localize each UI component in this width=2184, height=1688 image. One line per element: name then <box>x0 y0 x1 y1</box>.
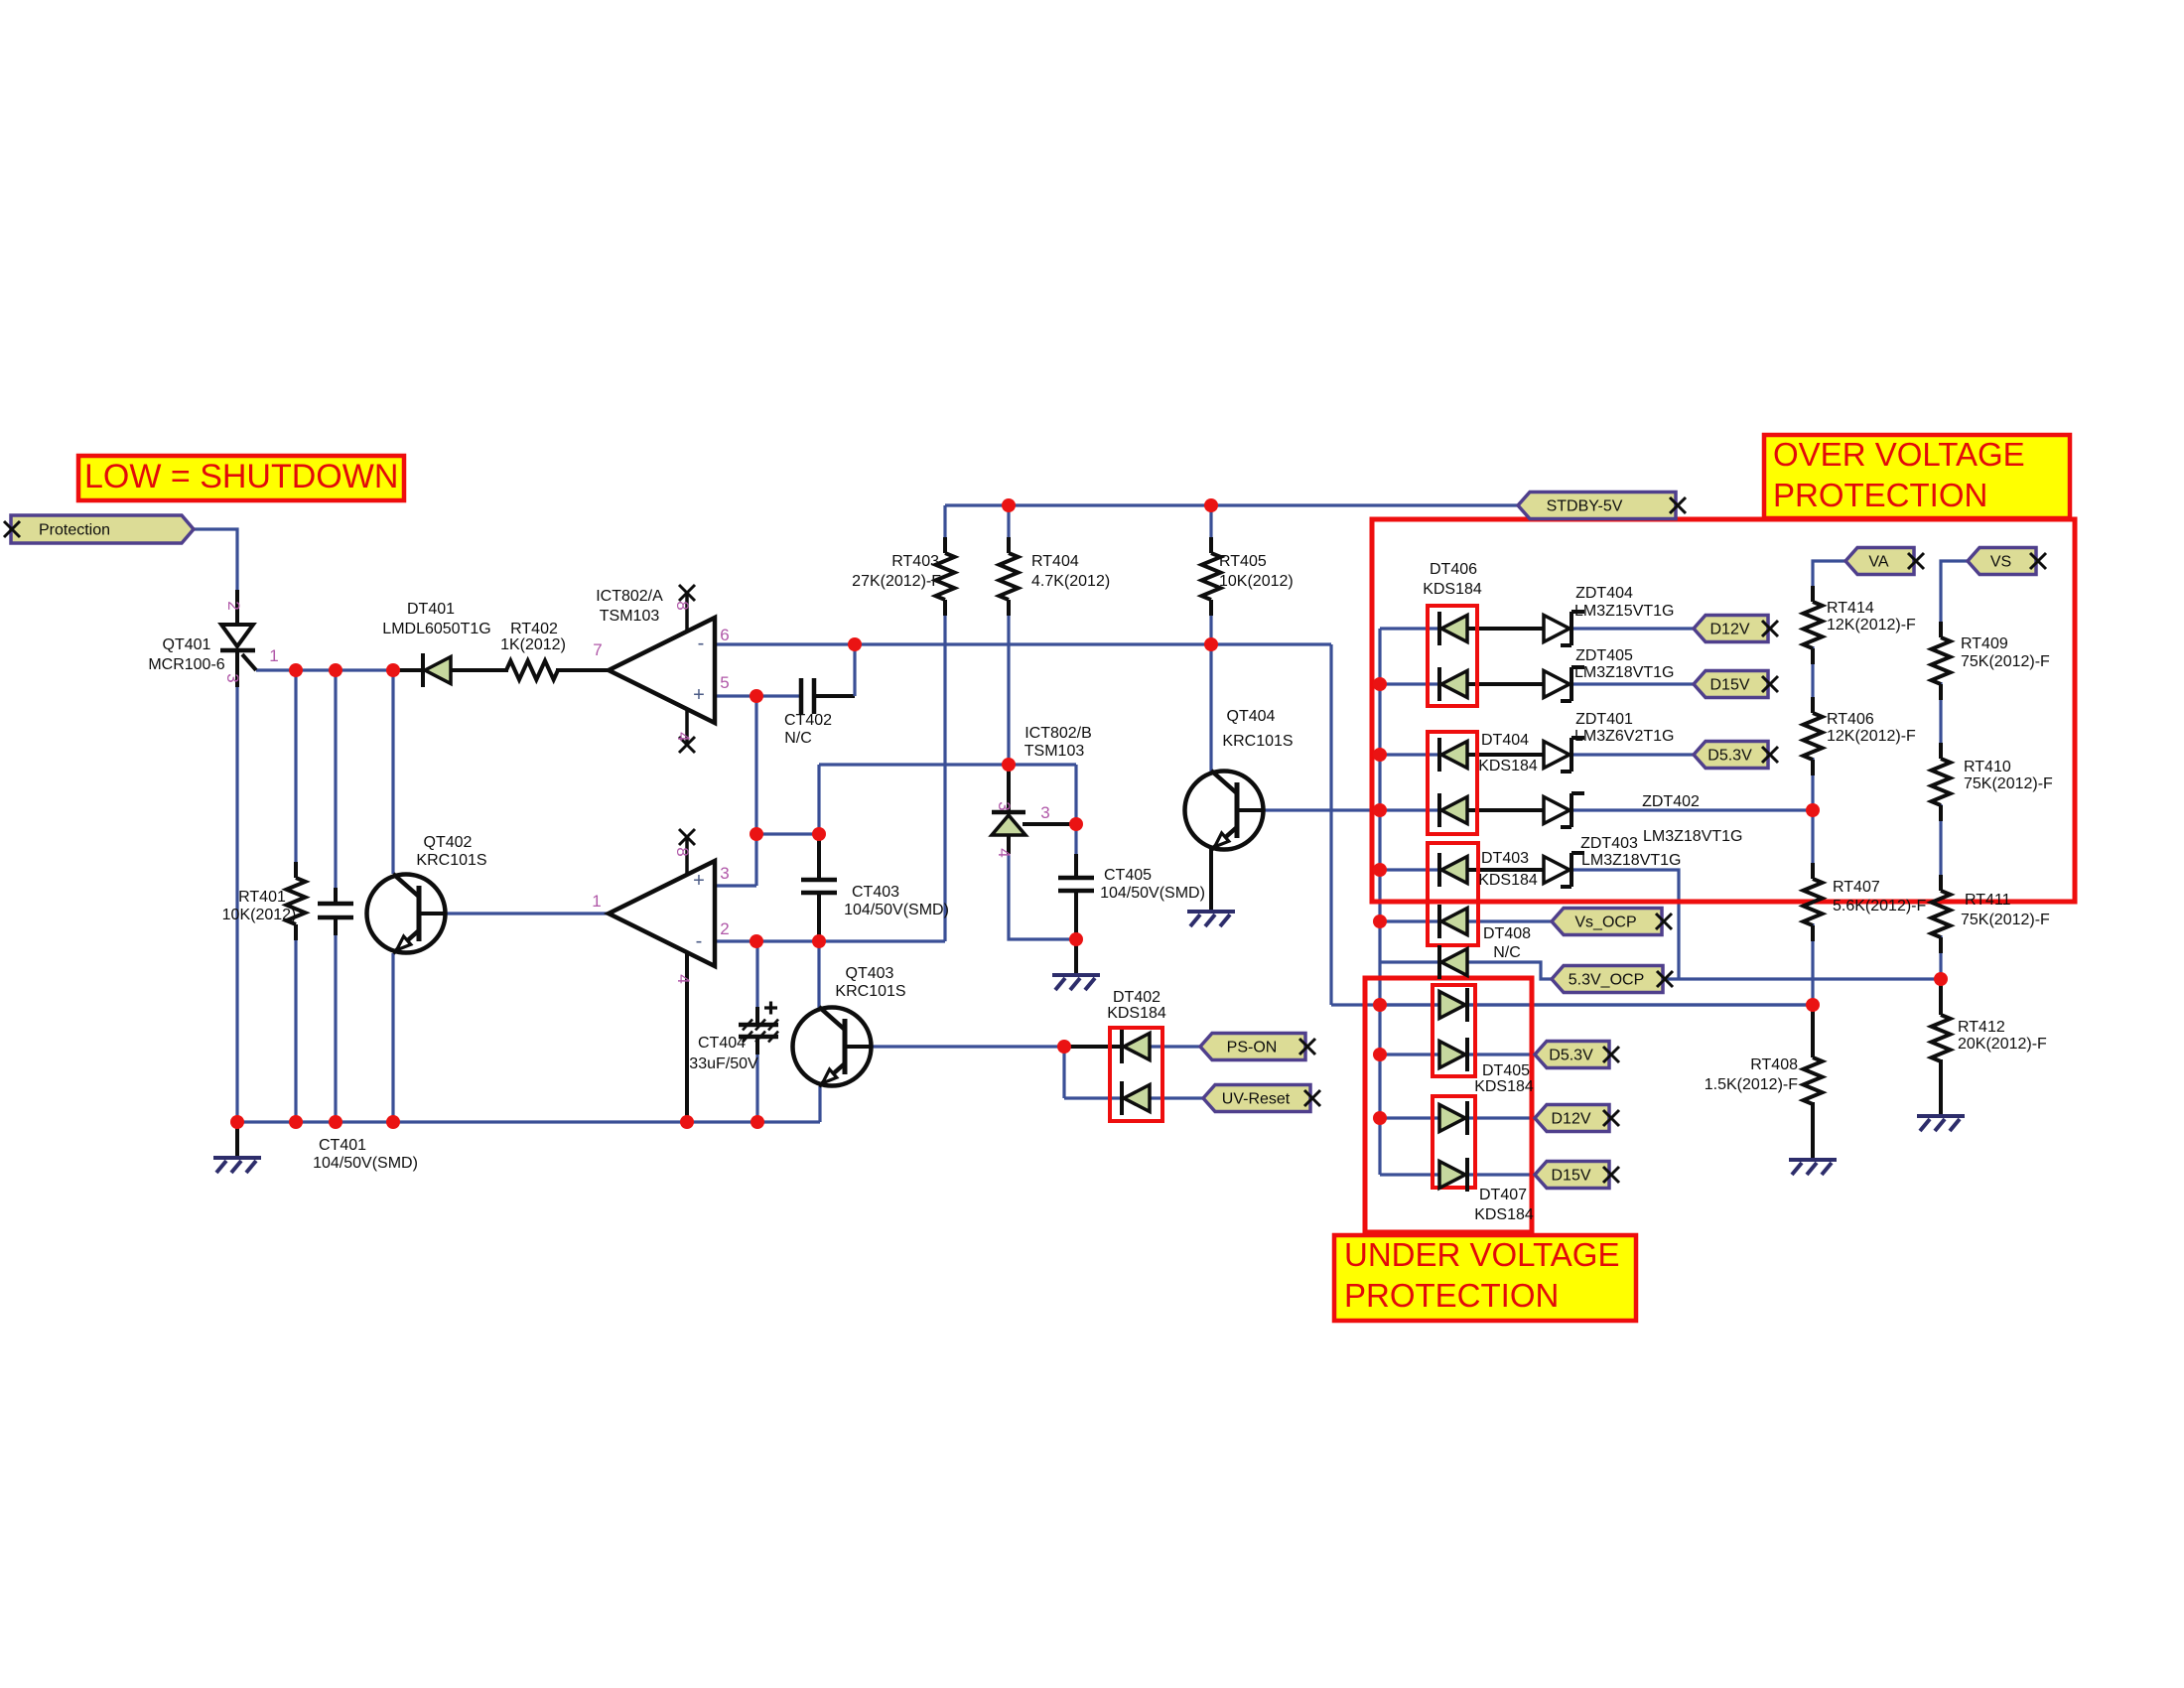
svg-text:10K(2012): 10K(2012) <box>1219 573 1294 590</box>
svg-text:CT401: CT401 <box>319 1137 366 1154</box>
svg-text:KRC101S: KRC101S <box>835 983 905 1000</box>
svg-text:12K(2012)-F: 12K(2012)-F <box>1827 617 1916 633</box>
svg-text:2: 2 <box>224 601 243 610</box>
svg-text:PS-ON: PS-ON <box>1227 1040 1278 1056</box>
svg-text:QT403: QT403 <box>846 965 894 982</box>
svg-text:KDS184: KDS184 <box>1107 1005 1166 1022</box>
svg-text:RT410: RT410 <box>1964 759 2011 775</box>
svg-text:RT402: RT402 <box>510 621 558 637</box>
svg-text:D12V: D12V <box>1709 622 1749 638</box>
svg-text:LOW = SHUTDOWN: LOW = SHUTDOWN <box>84 458 398 495</box>
svg-text:N/C: N/C <box>784 730 812 747</box>
svg-text:8: 8 <box>673 601 692 610</box>
svg-text:RT414: RT414 <box>1827 600 1874 617</box>
svg-text:Vs_OCP: Vs_OCP <box>1574 914 1636 931</box>
svg-text:ZDT403: ZDT403 <box>1580 835 1638 852</box>
svg-text:UV-Reset: UV-Reset <box>1222 1091 1291 1108</box>
svg-text:CT402: CT402 <box>784 712 832 729</box>
svg-text:LM3Z15VT1G: LM3Z15VT1G <box>1574 603 1674 620</box>
svg-text:KDS184: KDS184 <box>1474 1206 1534 1223</box>
svg-text:RT408: RT408 <box>1750 1056 1798 1073</box>
svg-text:10K(2012): 10K(2012) <box>222 907 297 923</box>
svg-text:33uF/50V: 33uF/50V <box>689 1055 758 1072</box>
svg-text:D5.3V: D5.3V <box>1549 1048 1593 1064</box>
svg-text:DT407: DT407 <box>1479 1187 1527 1203</box>
svg-text:ZDT402: ZDT402 <box>1642 793 1700 810</box>
svg-text:Protection: Protection <box>39 522 110 539</box>
svg-text:20K(2012)-F: 20K(2012)-F <box>1958 1036 2047 1053</box>
svg-text:DT401: DT401 <box>407 601 455 618</box>
svg-text:3: 3 <box>223 673 242 682</box>
svg-text:6: 6 <box>720 626 729 644</box>
svg-text:DT408: DT408 <box>1483 925 1531 942</box>
svg-text:3: 3 <box>995 801 1014 810</box>
svg-text:2: 2 <box>720 919 729 938</box>
svg-text:D5.3V: D5.3V <box>1707 748 1752 765</box>
svg-text:LM3Z6V2T1G: LM3Z6V2T1G <box>1574 728 1674 745</box>
svg-text:D15V: D15V <box>1551 1168 1590 1185</box>
svg-text:-: - <box>696 930 703 952</box>
svg-text:DT403: DT403 <box>1481 850 1529 867</box>
svg-text:+: + <box>693 684 705 706</box>
svg-text:+: + <box>693 870 705 892</box>
svg-text:DT405: DT405 <box>1482 1062 1530 1079</box>
svg-text:27K(2012)-F: 27K(2012)-F <box>852 573 941 590</box>
svg-text:LMDL6050T1G: LMDL6050T1G <box>382 621 490 637</box>
svg-text:104/50V(SMD): 104/50V(SMD) <box>313 1155 418 1172</box>
svg-text:UNDER VOLTAGE: UNDER VOLTAGE <box>1344 1236 1620 1273</box>
svg-text:CT403: CT403 <box>852 884 899 901</box>
svg-text:D15V: D15V <box>1709 677 1749 694</box>
svg-text:STDBY-5V: STDBY-5V <box>1547 498 1623 515</box>
svg-text:RT412: RT412 <box>1958 1019 2005 1036</box>
svg-text:RT411: RT411 <box>1965 892 2011 909</box>
svg-text:75K(2012)-F: 75K(2012)-F <box>1961 912 2050 928</box>
svg-text:104/50V(SMD): 104/50V(SMD) <box>844 902 949 918</box>
svg-text:DT404: DT404 <box>1481 732 1529 749</box>
svg-text:ZDT405: ZDT405 <box>1575 647 1633 664</box>
svg-text:104/50V(SMD): 104/50V(SMD) <box>1100 885 1205 902</box>
svg-text:RT406: RT406 <box>1827 711 1874 728</box>
svg-text:75K(2012)-F: 75K(2012)-F <box>1961 653 2050 670</box>
svg-text:TSM103: TSM103 <box>1024 743 1085 760</box>
svg-text:KDS184: KDS184 <box>1478 872 1538 889</box>
svg-text:KDS184: KDS184 <box>1474 1078 1534 1095</box>
svg-text:DT402: DT402 <box>1113 989 1160 1006</box>
svg-text:QT402: QT402 <box>424 834 473 851</box>
svg-text:ICT802/B: ICT802/B <box>1024 725 1092 742</box>
svg-text:RT403: RT403 <box>891 553 939 570</box>
svg-text:VA: VA <box>1868 554 1888 571</box>
svg-text:RT409: RT409 <box>1961 635 2008 652</box>
svg-text:ICT802/A: ICT802/A <box>596 588 663 605</box>
svg-text:RT404: RT404 <box>1031 553 1079 570</box>
svg-text:RT407: RT407 <box>1833 879 1880 896</box>
svg-text:4: 4 <box>674 974 693 983</box>
svg-text:KRC101S: KRC101S <box>416 852 486 869</box>
svg-text:4: 4 <box>995 848 1014 857</box>
svg-text:PROTECTION: PROTECTION <box>1773 477 1987 513</box>
svg-text:-: - <box>698 633 705 654</box>
svg-text:1.5K(2012)-F: 1.5K(2012)-F <box>1705 1076 1798 1093</box>
svg-text:CT405: CT405 <box>1104 867 1152 884</box>
svg-text:RT405: RT405 <box>1219 553 1267 570</box>
svg-text:VS: VS <box>1990 554 2011 571</box>
svg-text:LM3Z18VT1G: LM3Z18VT1G <box>1581 852 1681 869</box>
svg-text:QT401: QT401 <box>163 636 211 653</box>
svg-text:ZDT404: ZDT404 <box>1575 585 1633 602</box>
svg-text:CT404: CT404 <box>698 1035 746 1052</box>
svg-text:1K(2012): 1K(2012) <box>500 636 566 653</box>
svg-text:3: 3 <box>1040 803 1049 822</box>
svg-text:1: 1 <box>269 646 278 665</box>
svg-text:MCR100-6: MCR100-6 <box>148 656 224 673</box>
svg-text:OVER VOLTAGE: OVER VOLTAGE <box>1773 436 2025 473</box>
svg-text:TSM103: TSM103 <box>600 608 660 625</box>
svg-text:D12V: D12V <box>1551 1111 1590 1128</box>
svg-text:KDS184: KDS184 <box>1478 758 1538 774</box>
svg-text:RT401: RT401 <box>238 889 286 906</box>
svg-text:ZDT401: ZDT401 <box>1575 711 1633 728</box>
svg-text:4.7K(2012): 4.7K(2012) <box>1031 573 1110 590</box>
svg-text:KRC101S: KRC101S <box>1222 733 1293 750</box>
svg-text:DT406: DT406 <box>1430 561 1477 578</box>
svg-text:N/C: N/C <box>1493 944 1521 961</box>
svg-text:5.6K(2012)-F: 5.6K(2012)-F <box>1833 898 1926 914</box>
svg-text:KDS184: KDS184 <box>1423 581 1482 598</box>
svg-text:7: 7 <box>593 640 602 659</box>
svg-text:4: 4 <box>674 732 693 741</box>
svg-text:LM3Z18VT1G: LM3Z18VT1G <box>1574 664 1674 681</box>
svg-text:3: 3 <box>720 864 729 883</box>
svg-text:PROTECTION: PROTECTION <box>1344 1277 1559 1314</box>
svg-text:8: 8 <box>673 847 692 856</box>
svg-text:LM3Z18VT1G: LM3Z18VT1G <box>1643 828 1742 845</box>
svg-text:1: 1 <box>592 892 601 911</box>
svg-text:5: 5 <box>720 673 729 692</box>
svg-text:12K(2012)-F: 12K(2012)-F <box>1827 728 1916 745</box>
svg-text:5.3V_OCP: 5.3V_OCP <box>1569 972 1644 989</box>
svg-text:75K(2012)-F: 75K(2012)-F <box>1964 775 2053 792</box>
svg-text:QT404: QT404 <box>1227 708 1276 725</box>
